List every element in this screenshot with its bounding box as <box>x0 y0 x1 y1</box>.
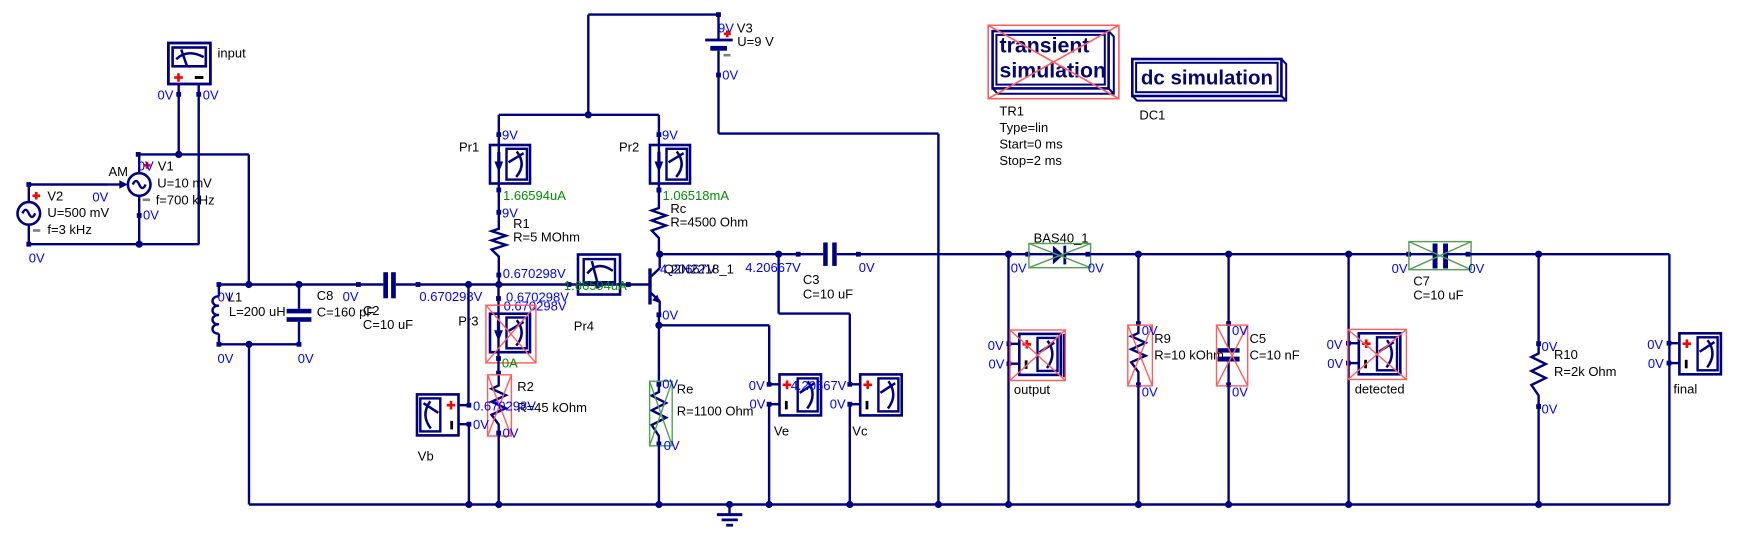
voltmeter Vb <box>417 394 471 435</box>
junction bus Re <box>655 501 662 508</box>
svg-text:0V: 0V <box>143 207 159 222</box>
svg-text:4.20667V: 4.20667V <box>745 260 801 275</box>
junction tank bottom to ground <box>245 341 252 348</box>
svg-text:0V: 0V <box>1468 261 1484 276</box>
svg-text:0V: 0V <box>138 158 154 173</box>
capacitor C2 <box>356 272 420 298</box>
svg-text:input: input <box>218 46 247 61</box>
svg-text:0V: 0V <box>29 250 45 265</box>
diode BAS40_1 <box>1025 246 1090 265</box>
svg-text:Ve: Ve <box>774 423 789 438</box>
svg-text:C3: C3 <box>803 272 820 287</box>
svg-text:C=10 uF: C=10 uF <box>1413 288 1463 303</box>
svg-text:C7: C7 <box>1413 273 1430 288</box>
svg-text:Vb: Vb <box>418 448 434 463</box>
wire R10 column top <box>1537 254 1539 344</box>
shorted box around Re <box>650 381 673 446</box>
svg-text:AM: AM <box>109 164 129 179</box>
junction C3 branch to Vc <box>775 251 782 258</box>
junction input plus / V1 top <box>175 151 182 158</box>
svg-text:R9: R9 <box>1154 331 1171 346</box>
ground <box>717 505 742 526</box>
label V2 minus <box>33 229 40 232</box>
wire input minus down <box>197 94 199 244</box>
inductor L1 <box>212 282 221 347</box>
wire tank top rail <box>219 283 359 285</box>
svg-text:0V: 0V <box>203 88 219 103</box>
wire Vb minus down to bus <box>468 424 470 504</box>
junction V1 bottom wire <box>136 241 143 248</box>
capacitor C5 <box>1218 321 1240 387</box>
svg-text:R=5 MOhm: R=5 MOhm <box>513 230 580 245</box>
svg-text:C=10 uF: C=10 uF <box>803 286 853 301</box>
am modulator V1 <box>109 152 151 244</box>
svg-text:dc simulation: dc simulation <box>1141 66 1273 89</box>
junction rail R9 branch <box>1135 251 1142 258</box>
wire V2 V1 bottom <box>29 243 200 245</box>
svg-text:0V: 0V <box>750 397 766 412</box>
capacitor C8 <box>287 285 312 347</box>
voltmeter output <box>1007 334 1061 375</box>
label V3 plus <box>724 30 731 37</box>
svg-text:0V: 0V <box>218 351 234 366</box>
voltmeter detected <box>1346 333 1400 374</box>
wire C5 column bottom <box>1227 385 1229 505</box>
svg-text:output: output <box>1014 382 1051 397</box>
wire battery top <box>588 15 718 115</box>
disabled box around R9 <box>1128 325 1153 386</box>
svg-text:V1: V1 <box>158 158 174 173</box>
wire Ve minus down to bus <box>768 404 770 504</box>
svg-text:0V: 0V <box>1392 261 1408 276</box>
capacitor C3 <box>796 243 861 266</box>
svg-text:Vc: Vc <box>852 423 868 438</box>
svg-text:1.66594uA: 1.66594uA <box>503 188 566 203</box>
ammeter Pr4 <box>567 255 631 295</box>
svg-text:0V: 0V <box>1232 323 1248 338</box>
svg-text:1.66594uA: 1.66594uA <box>564 278 627 293</box>
voltmeter Vc <box>847 374 901 415</box>
junction bus R2 <box>495 501 502 508</box>
wire top node to tank corner <box>138 154 249 284</box>
svg-text:0V: 0V <box>662 307 678 322</box>
wire base rail <box>418 283 569 285</box>
wire input plus down <box>177 94 179 154</box>
svg-text:R=10 kOhm: R=10 kOhm <box>1154 347 1224 362</box>
wire battery minus down <box>719 75 939 505</box>
junction C8 top <box>295 281 302 288</box>
ammeter Pr2 <box>650 132 690 192</box>
wire rail C3 to diode <box>858 253 1027 255</box>
resistor Re <box>652 382 666 447</box>
svg-text:0V: 0V <box>298 351 314 366</box>
resistor R2 <box>492 371 506 436</box>
ammeter Pr3 <box>490 296 530 361</box>
ac source V2 <box>18 182 41 247</box>
wire emitter branch to Ve <box>659 325 769 384</box>
svg-text:Re: Re <box>677 381 694 396</box>
junction battery tap on 9V rail <box>585 111 592 118</box>
svg-text:0.670298V: 0.670298V <box>503 266 566 281</box>
disabled box around Pr3 <box>486 305 536 363</box>
svg-text:0V: 0V <box>1327 337 1343 352</box>
wire C7 to final corner <box>1468 254 1669 504</box>
resistor Rc <box>652 188 666 255</box>
wire tank bottom <box>219 343 299 345</box>
junction bus detected meter <box>1345 501 1352 508</box>
svg-text:U=10 mV: U=10 mV <box>157 175 212 190</box>
svg-text:L=200 uH: L=200 uH <box>229 304 286 319</box>
junction rail C5 branch <box>1225 251 1232 258</box>
svg-text:Pr4: Pr4 <box>574 319 594 334</box>
disabled box around R2 <box>488 375 512 436</box>
svg-text:0V: 0V <box>664 438 680 453</box>
svg-text:C=10 uF: C=10 uF <box>363 317 413 332</box>
svg-text:Pr2: Pr2 <box>619 140 639 155</box>
voltmeter final <box>1667 333 1721 374</box>
junction bus output meter <box>1005 501 1012 508</box>
junction bus ground tap <box>726 501 733 508</box>
svg-text:V2: V2 <box>47 188 63 203</box>
resistor R10 <box>1531 341 1545 409</box>
dc simulation block DC1 <box>1132 59 1286 101</box>
disabled box around C5 <box>1217 325 1248 386</box>
svg-text:0V: 0V <box>1142 385 1158 400</box>
voltmeter Ve <box>767 374 821 415</box>
wire detected column <box>1347 254 1349 504</box>
label V1 plus <box>144 162 151 169</box>
junction rail output branch <box>1005 251 1012 258</box>
svg-text:0V: 0V <box>1232 385 1248 400</box>
wire rail down to Pr3 <box>497 285 499 299</box>
junction bus Ve <box>766 501 773 508</box>
wire Re down to bus <box>658 444 660 505</box>
ammeter Pr1 <box>490 132 530 192</box>
junction bus Vc <box>846 501 853 508</box>
svg-text:f=700 kHz: f=700 kHz <box>156 192 215 207</box>
svg-text:0.670298V: 0.670298V <box>473 399 536 414</box>
wire 9V rail <box>499 114 659 116</box>
svg-text:0V: 0V <box>1011 260 1027 275</box>
svg-text:R=1100 Ohm: R=1100 Ohm <box>677 404 754 419</box>
wire tank down to bus <box>248 344 250 504</box>
voltmeter input <box>168 43 210 97</box>
svg-text:9V: 9V <box>662 128 678 143</box>
wire collector rail to C3 <box>660 253 799 255</box>
svg-text:C5: C5 <box>1250 331 1267 346</box>
wire Pr1 to R1 <box>498 190 500 212</box>
svg-text:0V: 0V <box>988 338 1004 353</box>
svg-text:0V: 0V <box>473 417 489 432</box>
junction bus Vb <box>465 501 472 508</box>
svg-text:0V: 0V <box>343 289 359 304</box>
wire emitter down to Re <box>658 315 660 384</box>
svg-text:0.670298V: 0.670298V <box>419 289 482 304</box>
junction Vb branch <box>465 281 472 288</box>
svg-text:0V: 0V <box>989 357 1005 372</box>
resistor R1 <box>492 210 506 278</box>
svg-text:L1: L1 <box>228 290 242 305</box>
label V1 minus <box>143 199 150 202</box>
junction bus C5 <box>1225 501 1232 508</box>
resistor R9 <box>1131 321 1145 387</box>
wire Pr3 to R2 <box>497 359 499 374</box>
svg-text:0V: 0V <box>503 426 519 441</box>
capacitor C7 <box>1406 244 1470 269</box>
junction R1 R2 branch <box>495 281 502 288</box>
wire output column <box>1007 254 1009 504</box>
svg-text:R10: R10 <box>1554 347 1578 362</box>
disabled box around output meter <box>1010 330 1065 381</box>
wire R9 column bottom <box>1137 385 1139 505</box>
label V2 plus <box>33 192 41 200</box>
svg-text:0V: 0V <box>749 378 765 393</box>
svg-text:0V: 0V <box>1542 402 1558 417</box>
disabled box around detected meter <box>1348 329 1407 379</box>
wire 9V rail down to Pr1 <box>498 115 500 135</box>
battery V3 <box>705 12 733 77</box>
disabled box around transient simulation <box>988 25 1119 98</box>
junction rail R10 branch <box>1535 251 1542 258</box>
svg-text:0V: 0V <box>859 260 875 275</box>
junction emitter node <box>655 322 662 329</box>
junction bus R9 <box>1135 501 1142 508</box>
label V3 minus <box>724 54 731 57</box>
junction bus R10 <box>1535 501 1542 508</box>
svg-text:f=3 kHz: f=3 kHz <box>47 222 91 237</box>
svg-text:Type=lin: Type=lin <box>999 120 1048 135</box>
wire C5 column top <box>1227 254 1229 323</box>
svg-text:C8: C8 <box>317 288 334 303</box>
svg-text:Stop=2 ms: Stop=2 ms <box>999 153 1062 168</box>
wire V2 to AM mod input <box>29 183 109 185</box>
wire ground bus <box>249 503 1669 505</box>
wire R1 to rail <box>498 275 500 285</box>
svg-text:Start=0 ms: Start=0 ms <box>999 137 1063 152</box>
svg-text:0V: 0V <box>722 67 738 82</box>
svg-text:R=4500 Ohm: R=4500 Ohm <box>670 215 748 230</box>
svg-text:U=9 V: U=9 V <box>737 34 774 49</box>
svg-text:4.20667V: 4.20667V <box>791 378 847 393</box>
svg-text:R2: R2 <box>517 379 534 394</box>
wire Vc minus down to bus <box>849 404 851 504</box>
svg-text:0V: 0V <box>1647 337 1663 352</box>
junction collector node <box>656 251 663 258</box>
svg-text:DC1: DC1 <box>1139 108 1165 123</box>
svg-text:C=10 nF: C=10 nF <box>1250 347 1300 362</box>
svg-text:0V: 0V <box>92 189 108 204</box>
svg-text:U=500 mV: U=500 mV <box>47 205 109 220</box>
shorted box around C7 <box>1409 242 1471 270</box>
transistor Q2N2218_1 <box>628 254 661 317</box>
svg-text:Pr1: Pr1 <box>459 140 479 155</box>
svg-text:final: final <box>1673 381 1697 396</box>
wire R2 down to bus <box>498 433 500 505</box>
svg-text:0V: 0V <box>158 88 174 103</box>
wire branch down to Vc <box>779 254 850 384</box>
svg-text:detected: detected <box>1355 381 1405 396</box>
junction bus battery return <box>935 501 942 508</box>
svg-text:0V: 0V <box>830 397 846 412</box>
wire R10 column bottom <box>1537 407 1539 505</box>
wire Vb branch down <box>467 285 469 406</box>
svg-text:0A: 0A <box>502 356 518 371</box>
junction tank top from antenna <box>245 281 252 288</box>
svg-text:9V: 9V <box>502 128 518 143</box>
svg-text:transient: transient <box>1000 33 1090 57</box>
svg-text:0V: 0V <box>1088 260 1104 275</box>
wire R9 column top <box>1137 254 1139 323</box>
svg-text:Q2N2218_1: Q2N2218_1 <box>664 261 734 276</box>
svg-text:0V: 0V <box>1327 356 1343 371</box>
junction rail detected branch <box>1345 251 1352 258</box>
shorted box around BAS40_1 <box>1029 244 1091 268</box>
svg-text:BAS40_1: BAS40_1 <box>1034 230 1089 245</box>
wire 9V rail down to Pr2 <box>658 115 660 135</box>
svg-text:0V: 0V <box>1648 356 1664 371</box>
transient simulation block TR1 <box>993 31 1114 94</box>
svg-text:TR1: TR1 <box>999 103 1024 118</box>
svg-text:R=2k Ohm: R=2k Ohm <box>1554 364 1617 379</box>
wire diode to C7 <box>1088 253 1409 255</box>
